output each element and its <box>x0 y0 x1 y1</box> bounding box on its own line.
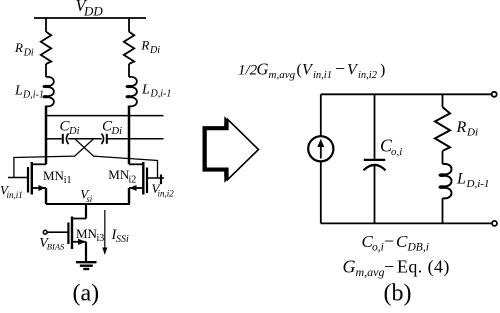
ground <box>76 261 97 263</box>
transistor MNi2 source wire with arrow <box>129 187 143 189</box>
terminal (b) top right <box>492 92 497 97</box>
wire current source bottom <box>320 161 322 223</box>
wire cross-couple to left gate <box>14 139 94 178</box>
svg-text:1/2: 1/2 <box>238 63 258 79</box>
transistor MNi3 channel bar <box>71 217 73 250</box>
resistor RDi left <box>41 32 51 64</box>
svg-text:R: R <box>140 38 149 53</box>
transistor MNi1 channel bar <box>31 162 33 195</box>
wire RDi to LD left <box>45 64 47 77</box>
capacitor CDi left <box>62 134 64 144</box>
svg-text:L: L <box>14 84 23 99</box>
svg-text:Di: Di <box>466 127 478 139</box>
wire capacitor line right segment <box>107 138 164 140</box>
svg-text:in,i1: in,i1 <box>313 70 332 81</box>
svg-text:m,avg: m,avg <box>356 265 385 279</box>
svg-text:Di: Di <box>23 47 34 58</box>
resistor RDi (b) <box>435 107 450 151</box>
svg-text:−: − <box>384 257 394 277</box>
svg-text:−: − <box>384 231 394 251</box>
wire right gate <box>148 177 165 179</box>
wire capacitor line middle segment <box>68 138 101 140</box>
wire (b) bottom rail <box>321 222 492 224</box>
svg-text:i2: i2 <box>129 175 137 186</box>
svg-text:D,i-1: D,i-1 <box>22 90 44 101</box>
svg-text:i3: i3 <box>97 233 105 244</box>
svg-text:i1: i1 <box>64 175 72 186</box>
capacitor Co,i <box>364 159 385 161</box>
transistor MNi2 drain wire <box>129 163 143 165</box>
inductor LD,i-1 left <box>43 77 54 106</box>
current source <box>308 136 333 161</box>
current arrow ISSi <box>104 210 106 250</box>
svg-text:D,i-1: D,i-1 <box>466 178 490 190</box>
transistor MNi1 gate bar <box>27 167 29 193</box>
wire LD (b) bottom <box>442 198 444 223</box>
terminal VBIAS circle <box>43 230 47 234</box>
svg-text:MN: MN <box>76 226 98 241</box>
wire left drain column <box>45 106 48 165</box>
wire VDD to RDi right <box>128 18 130 32</box>
svg-text:−: − <box>335 59 345 79</box>
big arrow <box>206 120 259 180</box>
transistor MNi3 gate bar <box>67 223 69 245</box>
svg-text:in,i1: in,i1 <box>7 190 23 200</box>
inductor LD,i-1 right <box>126 77 137 106</box>
svg-text:o,i: o,i <box>391 146 402 158</box>
terminal (b) bottom right <box>492 221 497 226</box>
svg-text:Di: Di <box>68 126 80 137</box>
transistor MNi1 drain wire <box>32 163 46 165</box>
wire VDD to RDi left <box>45 18 47 32</box>
svg-text:D,i-1: D,i-1 <box>150 89 172 100</box>
capacitor CDi right <box>102 134 104 145</box>
svg-text:o,i: o,i <box>372 242 384 254</box>
terminal Vin,i2 <box>160 175 162 185</box>
svg-text:si: si <box>86 194 93 204</box>
transistor MNi3 drain wire <box>72 218 86 220</box>
svg-text:Di: Di <box>149 45 160 56</box>
svg-text:(a): (a) <box>73 281 100 307</box>
inductor LD,i-1 (b) <box>440 164 452 198</box>
wire MNi3 source to ground <box>85 242 87 262</box>
svg-text:L: L <box>141 83 150 98</box>
svg-text:R: R <box>456 119 467 136</box>
svg-text:C: C <box>396 232 408 251</box>
svg-text:MN: MN <box>43 168 65 183</box>
svg-text:BIAS: BIAS <box>47 241 65 251</box>
wire MNi2 source to Vsi <box>128 188 130 204</box>
svg-text:SSi: SSi <box>116 234 129 245</box>
wire Vsi to MNi3 drain <box>85 204 87 219</box>
big arrow shadow <box>203 116 256 176</box>
wire MNi1 source to Vsi <box>45 188 47 204</box>
wire MNi3 gate <box>47 231 69 233</box>
svg-text:DD: DD <box>83 4 103 19</box>
transistor MNi1 source wire with arrow <box>32 187 46 189</box>
svg-text:Di: Di <box>111 126 123 137</box>
wire current source top <box>320 94 322 136</box>
svg-text:m,avg: m,avg <box>269 69 296 81</box>
svg-text:DB,i: DB,i <box>407 242 429 254</box>
wire capacitor Co,i bottom <box>374 166 376 224</box>
wire top output line <box>46 115 164 117</box>
wire RDi (b) top <box>442 94 444 107</box>
svg-text:Eq. (4): Eq. (4) <box>397 257 450 278</box>
transistor MNi2 channel bar <box>142 162 144 195</box>
transistor MNi2 gate bar <box>146 168 148 194</box>
svg-text:MN: MN <box>108 167 130 182</box>
wire RDi to LD (b) <box>442 151 444 164</box>
wire capacitor line left segment <box>46 138 62 140</box>
svg-text:in,i2: in,i2 <box>358 70 378 81</box>
wire VDD rail <box>34 17 146 19</box>
svg-text:): ) <box>380 62 385 79</box>
svg-text:G: G <box>343 257 356 277</box>
wire RDi to LD right <box>128 64 130 77</box>
wire left gate <box>8 177 27 179</box>
svg-text:in,i2: in,i2 <box>158 189 175 199</box>
wire cross-couple to right gate <box>75 139 158 178</box>
transistor MNi3 source wire with arrow <box>72 241 86 243</box>
wire capacitor Co,i top <box>374 94 376 159</box>
svg-text:L: L <box>456 171 466 188</box>
svg-text:R: R <box>14 40 23 55</box>
wire Vsi rail <box>46 203 130 205</box>
resistor RDi right <box>124 32 134 64</box>
wire right drain column <box>128 106 131 165</box>
wire (b) top rail <box>321 93 492 95</box>
svg-text:G: G <box>257 60 269 79</box>
svg-text:(b): (b) <box>384 281 412 307</box>
